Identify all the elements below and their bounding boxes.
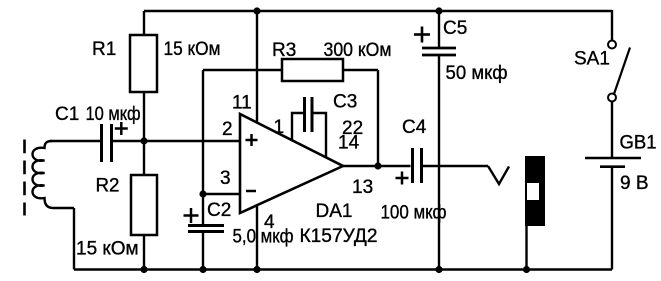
wire R3 left lead horizontal — [203, 69, 282, 71]
label C5 value 50 мкф — [446, 63, 508, 84]
resistor R2 — [131, 175, 157, 235]
wire C2 top lead — [202, 194, 204, 225]
connector X1 plug body — [525, 156, 545, 226]
svg-text:5,0 мкф: 5,0 мкф — [233, 227, 294, 248]
op-amp plus input marking — [246, 134, 258, 146]
capacitor C1 plates — [100, 124, 103, 162]
resistor R1 — [130, 35, 157, 92]
wire right rail down to SA1 — [611, 10, 613, 40]
battery GB1 negative plate — [600, 165, 625, 168]
label C3 — [333, 92, 357, 113]
capacitor C3 plates — [303, 97, 306, 132]
wire C3 left lead to pin 1 — [292, 113, 305, 140]
label R1 value 15 кОм — [164, 39, 221, 60]
svg-text:15 кОм: 15 кОм — [76, 239, 139, 260]
op-amp DA1 triangle — [240, 114, 343, 213]
wire R3 right lead vertical to output node — [377, 70, 379, 166]
wire C3 right lead to pin 14 — [312, 113, 326, 157]
wire bottom ground rail — [74, 268, 612, 270]
svg-text:DA1: DA1 — [316, 201, 353, 222]
wire battery to ground rail — [611, 167, 613, 270]
svg-text:15 кОм: 15 кОм — [164, 39, 221, 60]
svg-text:3: 3 — [220, 168, 231, 189]
wire coil to C1 — [50, 140, 100, 142]
label SA1 — [574, 49, 610, 70]
svg-text:C2: C2 — [207, 200, 231, 221]
label C1 value 10 мкф — [86, 104, 141, 125]
label C2 — [207, 200, 231, 221]
switch SA1 top contact — [608, 41, 616, 49]
label C5 — [443, 18, 467, 39]
svg-text:C4: C4 — [402, 117, 427, 138]
capacitor C2 polarity plus — [184, 208, 199, 223]
wire op-amp pin 4 to ground — [256, 205, 258, 270]
wire top supply rail — [144, 10, 612, 12]
svg-text:C3: C3 — [333, 92, 357, 113]
label pin 14 — [338, 133, 360, 154]
wire op-amp output pin 13 — [343, 165, 411, 167]
node C5 to top rail — [435, 7, 442, 14]
capacitor C1 polarity plus — [115, 122, 128, 135]
node feedback to output — [374, 162, 381, 169]
node junction R1/R2/C1/pin2 — [140, 137, 147, 144]
wire R2 bottom lead — [143, 235, 145, 270]
label R1 — [92, 39, 116, 60]
capacitor C2 plates — [188, 224, 224, 227]
svg-text:C1: C1 — [55, 104, 79, 125]
label pin 4 — [264, 212, 275, 233]
svg-text:14: 14 — [338, 133, 360, 154]
label DA1 — [316, 201, 353, 222]
node pin 4 to ground rail — [253, 266, 260, 273]
label GB1 — [620, 133, 657, 154]
label pin 13 — [352, 177, 373, 198]
svg-text:11: 11 — [232, 93, 252, 114]
label pin 2 — [222, 119, 233, 140]
svg-text:50 мкф: 50 мкф — [446, 63, 508, 84]
svg-text:10 мкф: 10 мкф — [86, 104, 141, 125]
svg-text:C5: C5 — [443, 18, 467, 39]
wire C5 top lead — [438, 11, 440, 48]
wire C5 bottom lead to ground rail — [438, 55, 440, 270]
wire C4 to connector — [423, 165, 488, 167]
svg-text:SA1: SA1 — [574, 49, 610, 70]
wire R2 top lead — [143, 141, 145, 175]
capacitor C5 polarity plus — [414, 27, 430, 43]
svg-text:2: 2 — [222, 119, 233, 140]
svg-text:100 мкф: 100 мкф — [381, 203, 447, 224]
label GB1 value 9 В — [620, 173, 649, 194]
svg-text:R1: R1 — [92, 39, 116, 60]
svg-text:К157УД2: К157УД2 — [300, 226, 378, 247]
svg-text:GB1: GB1 — [620, 133, 657, 154]
wire R3 left lead vertical to inverting input node — [202, 70, 204, 194]
label C1 — [55, 104, 79, 125]
wire plug to ground rail — [525, 226, 527, 270]
label C2 value 5,0 мкф — [233, 227, 294, 248]
wire op-amp pin 11 supply — [256, 11, 258, 123]
label C4 value 100 мкф — [381, 203, 447, 224]
label R3 — [272, 40, 296, 61]
switch SA1 bottom contact — [608, 94, 616, 102]
wire R3 right lead horizontal — [343, 69, 378, 71]
capacitor C4 plates — [411, 148, 414, 183]
label pin 3 — [220, 168, 231, 189]
node C2 to ground rail — [199, 266, 206, 273]
label DA1 type К157УД2 — [300, 226, 378, 247]
node pin 11 to top rail — [253, 7, 260, 14]
wire R1 top lead — [143, 11, 145, 35]
label R3 value 300 кОм — [324, 40, 392, 61]
svg-text:13: 13 — [352, 177, 373, 198]
node C5 to ground rail — [435, 266, 442, 273]
wire op-amp pin 3 inverting input — [203, 193, 240, 195]
inductor BM1 telephone capsule coil — [33, 141, 75, 208]
wire node A to op-amp pin 2 — [144, 140, 240, 142]
wire coil bottom to ground rail — [73, 208, 75, 270]
label pin 11 — [232, 93, 252, 114]
label R2 — [96, 176, 120, 197]
capacitor C4 polarity plus — [396, 172, 409, 185]
svg-text:R2: R2 — [96, 176, 120, 197]
resistor R3 — [282, 59, 343, 81]
label C3 value 22 — [342, 118, 363, 139]
connector X1 socket contact — [488, 166, 509, 184]
node plug to ground rail — [523, 266, 530, 273]
label C4 — [402, 117, 427, 138]
capacitor C5 plates — [422, 47, 456, 50]
label R2 value 15 кОм — [76, 239, 139, 260]
node R2 to ground rail — [140, 266, 147, 273]
svg-text:R3: R3 — [272, 40, 296, 61]
inductor core dashed line — [23, 140, 26, 216]
switch SA1 lever — [614, 48, 630, 95]
node inverting input junction — [199, 190, 206, 197]
op-amp minus input marking — [246, 190, 256, 193]
label pin 1 — [274, 117, 285, 138]
wire R1 bottom lead — [143, 92, 145, 141]
svg-text:1: 1 — [274, 117, 285, 138]
wire SA1 to battery — [611, 102, 613, 158]
battery GB1 positive plate — [585, 157, 641, 160]
wire C1 to node A — [113, 140, 144, 142]
svg-text:9 В: 9 В — [620, 173, 649, 194]
wire C2 bottom lead — [202, 232, 204, 270]
svg-text:300 кОм: 300 кОм — [324, 40, 392, 61]
